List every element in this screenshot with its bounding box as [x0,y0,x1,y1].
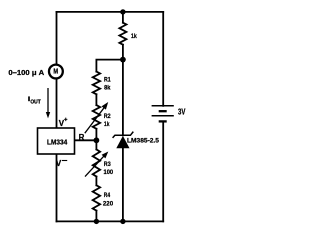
svg-text:8k: 8k [104,85,111,92]
wire 1k bottom lead [122,45,124,60]
svg-text:1k: 1k [131,33,137,40]
wire bottom rail [57,220,164,222]
junction node middle column / bottom rail [94,219,99,224]
resistor R4 zigzag [93,185,100,210]
wire middle column R2-R3 [95,129,97,150]
wire right column lower [162,121,164,221]
resistor R3 zigzag [93,149,100,176]
current arrow IOUT [46,88,50,118]
battery B1 [152,106,174,122]
wire middle column R3-R4 [95,177,97,186]
svg-text:R: R [79,133,85,142]
wire zener cathode lead [122,60,124,136]
resistor R2 wiper arrow [85,102,108,133]
wire middle column R1-R2 [95,94,97,105]
svg-text:V: V [56,159,62,168]
wire top rail [57,11,164,13]
resistor R3 wiper arrow [85,152,108,177]
svg-text:R3: R3 [104,161,111,168]
wire 1k top lead [122,12,124,23]
wire LM334 R pin to middle column [75,139,97,141]
junction node 1k bottom / middle column [120,57,126,63]
IC U1 LM334 box [38,128,75,154]
svg-text:100: 100 [104,169,114,176]
wire left column LM334 to bottom rail [56,154,58,221]
pin label V- superscript bar [62,160,67,162]
svg-text:3V: 3V [178,107,186,116]
resistor R1 zigzag [93,72,100,95]
meter M1 circle [49,65,63,79]
svg-text:220: 220 [103,201,113,208]
svg-text:LM334: LM334 [47,138,68,147]
zener diode D1 LM385-2.5 [113,132,134,149]
label IOUT [28,96,30,101]
junction node zener / bottom rail [120,219,125,224]
resistor R2 zigzag [93,105,100,129]
svg-text:M: M [53,69,58,76]
svg-text:R1: R1 [104,77,111,84]
junction node R pin / middle column [94,137,100,143]
svg-text:0–100 μ A: 0–100 μ A [8,68,44,77]
junction node top rail / 1k [120,9,125,14]
svg-text:LM385-2.5: LM385-2.5 [127,138,159,145]
svg-text:R2: R2 [104,113,111,120]
wire zener anode lead [122,148,124,221]
wire right column upper [162,12,164,106]
wire middle column top to 1k bottom node [96,60,123,72]
svg-text:+: + [64,118,68,124]
resistor 1k (top) zigzag [119,23,126,45]
wire left column meter to LM334 [56,79,58,128]
svg-text:1k: 1k [104,121,110,128]
wire left column upper [56,12,58,64]
svg-text:R4: R4 [104,192,111,199]
wire middle column R4 to bottom rail [95,211,97,222]
svg-text:OUT: OUT [30,99,40,105]
